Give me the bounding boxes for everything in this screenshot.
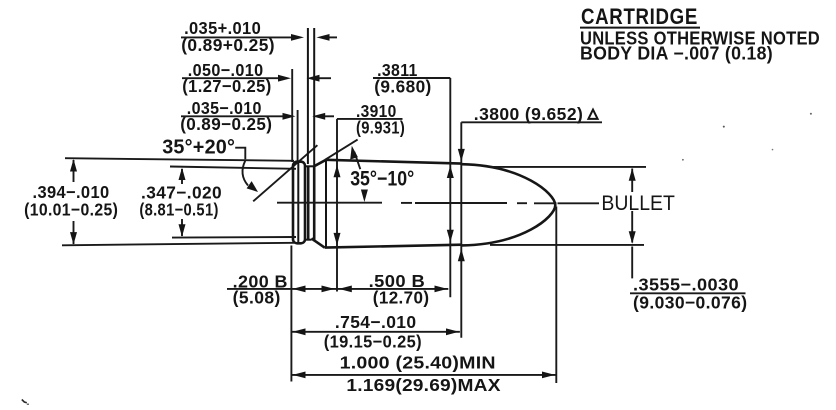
svg-text:.3555−.0030: .3555−.0030 <box>633 275 739 295</box>
svg-text:(19.15−0.25): (19.15−0.25) <box>324 332 422 352</box>
svg-text:(0.89−0.25): (0.89−0.25) <box>180 114 272 134</box>
svg-text:CARTRIDGE: CARTRIDGE <box>581 4 698 29</box>
svg-text:35°+20°: 35°+20° <box>162 136 235 158</box>
svg-text:(5.08): (5.08) <box>233 288 281 308</box>
svg-text:1.000 (25.40)MIN: 1.000 (25.40)MIN <box>340 353 496 373</box>
svg-text:(8.81−0.51): (8.81−0.51) <box>139 200 218 220</box>
svg-text:35°−10°: 35°−10° <box>350 167 414 190</box>
svg-text:.3800 (9.652): .3800 (9.652) <box>474 104 583 124</box>
svg-text:(0.89+0.25): (0.89+0.25) <box>181 35 275 55</box>
svg-text:(9.931): (9.931) <box>356 118 405 138</box>
svg-text:(1.27−0.25): (1.27−0.25) <box>182 76 272 96</box>
svg-text:(9.680): (9.680) <box>374 76 431 96</box>
svg-text:BODY DIA −.007 (0.18): BODY DIA −.007 (0.18) <box>580 43 773 63</box>
svg-text:.754−.010: .754−.010 <box>335 312 417 332</box>
svg-text:(12.70): (12.70) <box>373 288 430 308</box>
svg-text:1.169(29.69)MAX: 1.169(29.69)MAX <box>346 375 500 395</box>
svg-text:(9.030−0.076): (9.030−0.076) <box>633 293 748 313</box>
svg-text:(10.01−0.25): (10.01−0.25) <box>24 200 118 220</box>
svg-text:BULLET: BULLET <box>601 192 675 215</box>
